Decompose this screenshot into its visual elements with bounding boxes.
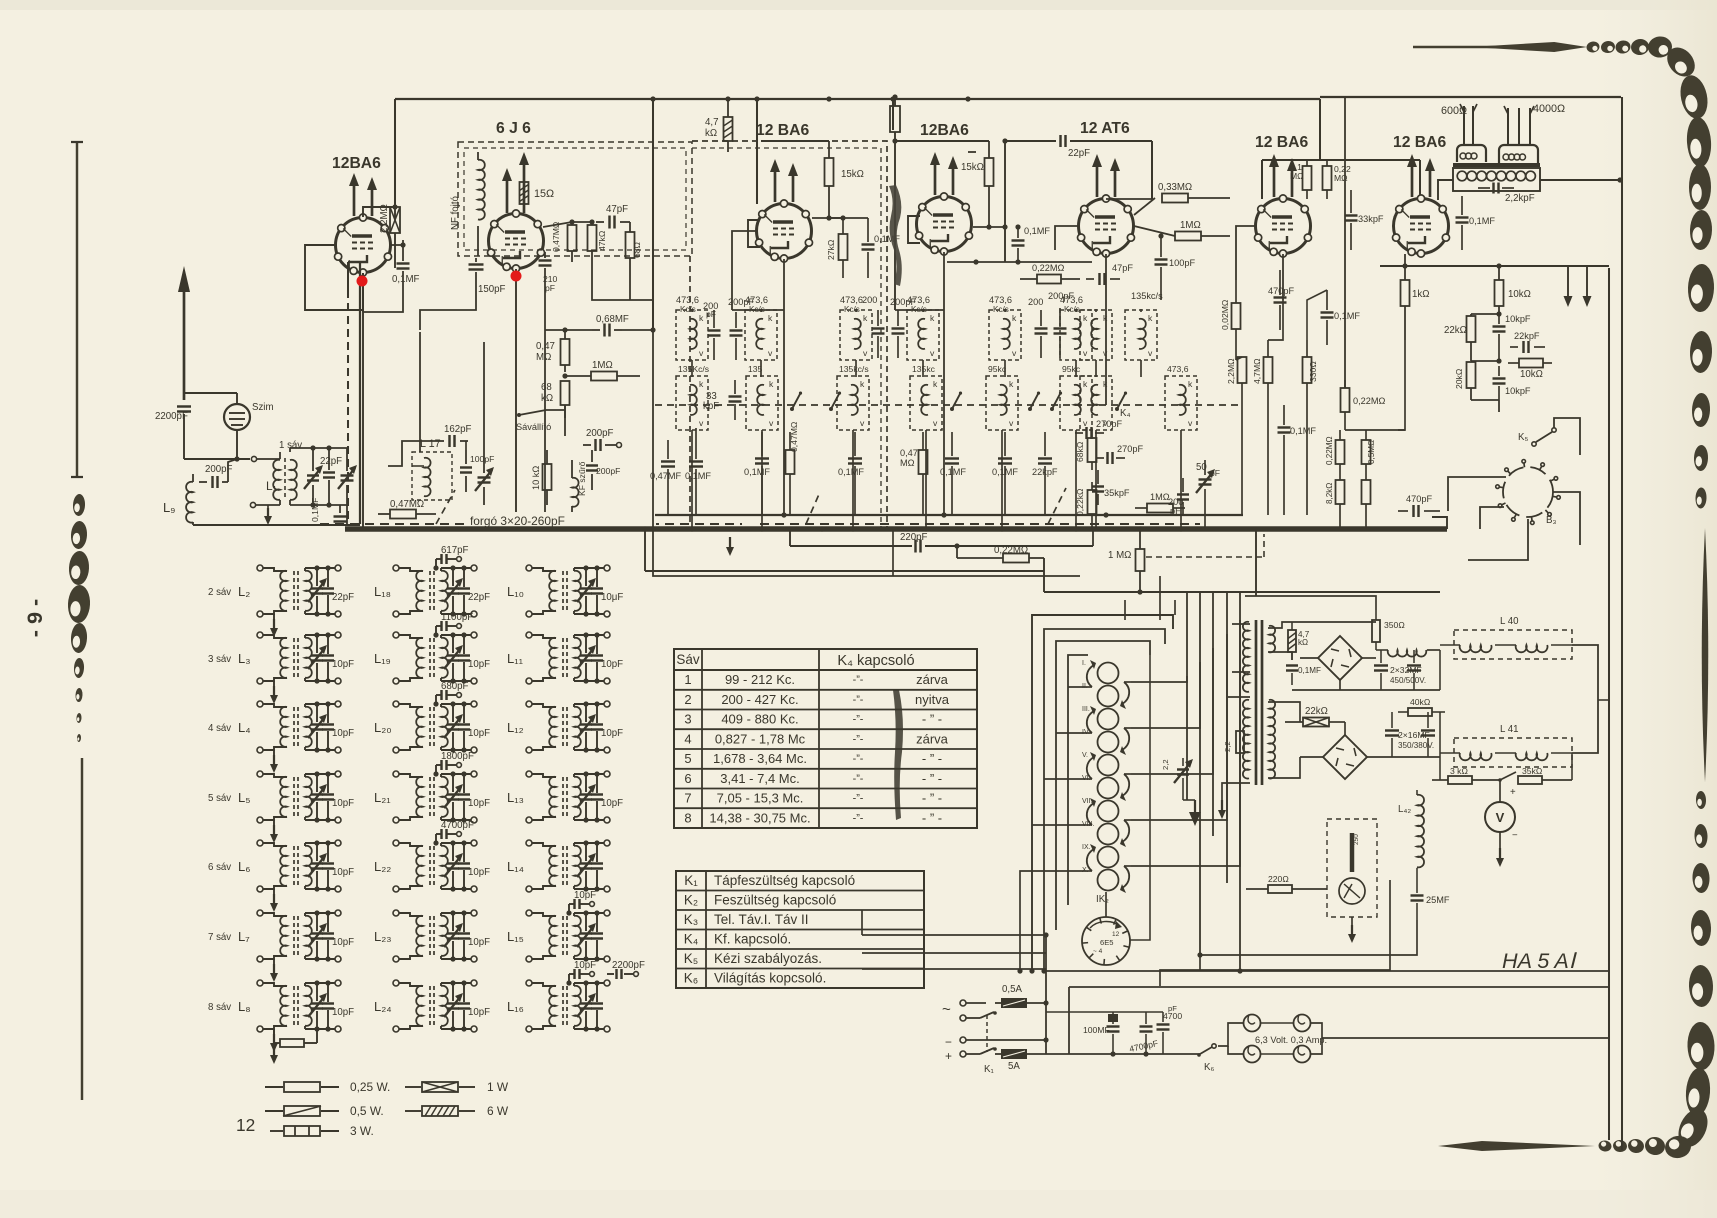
svg-text:10pF: 10pF bbox=[468, 798, 490, 809]
switch Vm bbox=[1498, 772, 1516, 782]
svg-text:v: v bbox=[1188, 418, 1193, 428]
capacitor 4700pF b bbox=[1157, 1004, 1183, 1054]
svg-text:4700pF: 4700pF bbox=[441, 820, 474, 831]
ornament right chain lower bbox=[1687, 791, 1716, 1071]
resistor 68kohm v bbox=[1075, 430, 1097, 470]
wire join6 bbox=[1597, 645, 1599, 700]
svg-text:4: 4 bbox=[684, 732, 691, 747]
svg-text:2×32MF: 2×32MF bbox=[1390, 665, 1422, 675]
svg-text:L₂₃: L₂₃ bbox=[374, 929, 392, 944]
svg-text:2,2: 2,2 bbox=[1161, 759, 1170, 770]
svg-text:2 sáv: 2 sáv bbox=[208, 587, 231, 598]
shield box NF fojto bbox=[458, 142, 692, 256]
svg-text:470pF: 470pF bbox=[1406, 494, 1432, 504]
svg-text:14,38 - 30,75 Mc.: 14,38 - 30,75 Mc. bbox=[709, 811, 810, 826]
coil unit L8 bbox=[208, 980, 354, 1064]
svg-text:10pF: 10pF bbox=[332, 867, 354, 878]
svg-text:L₄₂: L₄₂ bbox=[1398, 804, 1411, 815]
svg-text:L₁₉: L₁₉ bbox=[374, 651, 391, 666]
capacitor 210pF bbox=[539, 252, 558, 293]
wire join10 bbox=[1245, 596, 1376, 610]
svg-text:k: k bbox=[1009, 379, 1014, 389]
ground bus bbox=[726, 537, 734, 556]
svg-text:7 sáv: 7 sáv bbox=[208, 932, 231, 943]
wire drop d3 bbox=[1306, 410, 1308, 515]
svg-text:4000Ω: 4000Ω bbox=[1533, 103, 1565, 115]
svg-text:2,2MΩ: 2,2MΩ bbox=[1226, 358, 1236, 384]
svg-text:20kΩ: 20kΩ bbox=[1454, 368, 1464, 389]
svg-text:MΩ: MΩ bbox=[1334, 173, 1348, 183]
capacitor 47pF V5 bbox=[1086, 263, 1133, 285]
IF can lower 135Kc/s x692 bbox=[676, 364, 709, 430]
wire route p7 bbox=[1056, 732, 1085, 734]
svg-text:K₆: K₆ bbox=[1204, 1062, 1214, 1073]
arrow down r1 bbox=[1564, 266, 1573, 307]
wire bbox=[652, 99, 654, 330]
ornament left chain bbox=[67, 494, 91, 742]
label HA5AI bbox=[1502, 948, 1578, 973]
svg-text:L₁₄: L₁₄ bbox=[507, 859, 524, 874]
wire bbox=[892, 99, 894, 130]
svg-text:L₂₀: L₂₀ bbox=[374, 720, 392, 735]
svg-text:k: k bbox=[699, 379, 704, 389]
coil unit L20 bbox=[374, 681, 490, 753]
svg-text:200pF: 200pF bbox=[596, 466, 620, 476]
table K1-K6 legend bbox=[676, 871, 924, 988]
svg-text:0,1MF: 0,1MF bbox=[1334, 311, 1360, 321]
pilot lamp 2 bbox=[1294, 1015, 1311, 1032]
IF can lower 473,6 x1181 bbox=[1165, 364, 1197, 430]
dashed K1 link bbox=[986, 1015, 988, 1052]
grid bracket V4 bbox=[908, 216, 920, 243]
resistor 2,2kohm tr bbox=[1223, 720, 1244, 762]
tube V3 12BA6 bbox=[756, 122, 813, 262]
wire route i bbox=[1307, 290, 1327, 340]
capacitor 270pF a bbox=[1075, 419, 1122, 439]
resistor 15kohm V3 bbox=[825, 141, 864, 218]
svg-text:10pF: 10pF bbox=[468, 659, 490, 670]
svg-text:1MΩ: 1MΩ bbox=[1150, 492, 1170, 502]
resistor 4,7kohm ps bbox=[1288, 622, 1310, 660]
svg-text:I.: I. bbox=[1082, 660, 1086, 667]
wire route h bbox=[1268, 300, 1283, 340]
IF can 473,6 x692 bbox=[676, 295, 708, 360]
wire V6 grid bbox=[1236, 226, 1255, 280]
label K1 bbox=[984, 1064, 994, 1075]
svg-text:L₁₂: L₁₂ bbox=[507, 720, 524, 735]
resistor 20kohm bbox=[1454, 362, 1476, 400]
coil out primary bbox=[1453, 168, 1540, 191]
svg-text:473,6: 473,6 bbox=[989, 295, 1012, 305]
legend resistor 6W bbox=[405, 1104, 509, 1118]
wire V4 cathode bbox=[943, 252, 945, 515]
bus dots bbox=[689, 526, 1183, 531]
wire osc up2 bbox=[483, 342, 485, 460]
wire route p4 bbox=[1131, 634, 1227, 820]
svg-text:L₈: L₈ bbox=[238, 999, 251, 1014]
resistor 1Mohm low bbox=[1108, 526, 1145, 594]
svg-text:v: v bbox=[933, 418, 938, 428]
svg-text:10kΩ: 10kΩ bbox=[1508, 289, 1531, 300]
svg-text:22pF: 22pF bbox=[1068, 148, 1090, 159]
coil unit L7 bbox=[208, 910, 354, 982]
ground L1 bbox=[264, 505, 272, 525]
wire route p11 bbox=[1105, 892, 1107, 917]
svg-text:0,5MΩ: 0,5MΩ bbox=[1367, 440, 1376, 464]
coil unit L6 bbox=[208, 840, 354, 912]
svg-text:K₄: K₄ bbox=[1120, 408, 1130, 419]
dashed diag1 bbox=[436, 490, 455, 524]
red dot 1 bbox=[357, 276, 368, 287]
svg-text:KF szűrő: KF szűrő bbox=[577, 461, 587, 496]
wire route c bbox=[895, 309, 944, 311]
table Sav/K4 kapcsolo bbox=[674, 649, 977, 828]
wire route p8 bbox=[1044, 778, 1085, 780]
capacitor 200pF if5 bbox=[1028, 297, 1048, 358]
coil unit L12 bbox=[507, 701, 623, 753]
svg-text:pF: pF bbox=[1210, 468, 1220, 478]
svg-text:0,02MΩ: 0,02MΩ bbox=[1220, 299, 1230, 330]
dashed forgo line bbox=[320, 523, 1200, 525]
capacitor 0,1MF a bbox=[685, 428, 711, 515]
svg-text:2200pF: 2200pF bbox=[612, 960, 645, 971]
variable cap main1 bbox=[338, 448, 357, 525]
svg-text:NF fojtó: NF fojtó bbox=[450, 196, 461, 230]
page number -9- bbox=[22, 599, 47, 637]
label 600ohm bbox=[1441, 105, 1467, 117]
wire route d bbox=[968, 151, 976, 153]
svg-text:10pF: 10pF bbox=[332, 937, 354, 948]
svg-text:MΩ: MΩ bbox=[1290, 171, 1304, 181]
ground ps mid bbox=[1183, 800, 1201, 826]
svg-text:k: k bbox=[699, 313, 704, 323]
power transformer bbox=[1243, 620, 1275, 785]
svg-text:6,3 Volt. 0,3 Amp.: 6,3 Volt. 0,3 Amp. bbox=[1255, 1035, 1327, 1045]
heater arrows V7 12BA6 bbox=[1407, 154, 1435, 197]
label 1 sav bbox=[279, 440, 302, 451]
svg-text:K₄: K₄ bbox=[684, 932, 699, 947]
svg-text:22kΩ: 22kΩ bbox=[1305, 706, 1328, 717]
legend resistor 0.5W bbox=[265, 1104, 384, 1118]
ornament top-right beads bbox=[1586, 38, 1651, 57]
terminal - bbox=[960, 1037, 1046, 1043]
svg-text:VII.: VII. bbox=[1082, 798, 1093, 805]
svg-text:K₃: K₃ bbox=[684, 912, 699, 927]
wire route g bbox=[1432, 517, 1447, 529]
coil unit L18 bbox=[374, 545, 490, 617]
svg-text:- ” -: - ” - bbox=[922, 751, 942, 766]
svg-text:95kc: 95kc bbox=[988, 364, 1007, 374]
voltmeter V bbox=[1485, 780, 1518, 848]
svg-text:473,6: 473,6 bbox=[840, 295, 863, 305]
wire ant row bbox=[184, 456, 272, 461]
capacitor 0,1MF m bbox=[1321, 290, 1361, 345]
capacitor 162pF bbox=[436, 424, 472, 447]
resistor 2,2Mohm m bbox=[1226, 357, 1247, 410]
svg-text:IX.: IX. bbox=[1082, 844, 1091, 851]
pilot lamp 4 bbox=[1294, 1046, 1311, 1063]
resistor 2,2Mohm bbox=[379, 204, 400, 268]
capacitor 2x32MF bbox=[1374, 650, 1426, 690]
capacitor 270pF b bbox=[1096, 444, 1143, 464]
coil unit L24 bbox=[374, 980, 490, 1032]
capacitor 2,2kpF bbox=[1478, 183, 1535, 205]
svg-text:35kpF: 35kpF bbox=[1104, 488, 1130, 498]
svg-text:L₁: L₁ bbox=[266, 479, 277, 493]
wire lamp box bbox=[1218, 1023, 1243, 1054]
wire B3 a bbox=[1553, 492, 1580, 545]
wire underline4 bbox=[1044, 591, 1440, 593]
svg-text:- ” -: - ” - bbox=[922, 771, 942, 786]
resistor 0,47Mohm b bbox=[786, 421, 800, 515]
svg-text:k: k bbox=[1188, 379, 1193, 389]
wire ps1 bbox=[1292, 622, 1440, 690]
ornament right chain upper bbox=[1687, 210, 1715, 509]
svg-text:200: 200 bbox=[862, 295, 877, 305]
wire drop d2 bbox=[1267, 410, 1269, 515]
wire V4 plate vert bbox=[1002, 138, 1007, 262]
svg-text:L₁₀: L₁₀ bbox=[507, 584, 524, 599]
capacitor 0,1MF e bbox=[992, 432, 1018, 515]
svg-text:409 - 880 Kc.: 409 - 880 Kc. bbox=[721, 712, 798, 727]
IF can 473,6 x923 bbox=[907, 295, 939, 360]
resistor 10kohm r1 bbox=[1495, 266, 1531, 314]
wire mains v1 bbox=[1043, 935, 1048, 1054]
svg-text:330Ω: 330Ω bbox=[1308, 361, 1318, 382]
resistor 0,33Mohm bbox=[1134, 182, 1230, 215]
coil NF fojto bbox=[450, 152, 485, 256]
svg-text:L₇: L₇ bbox=[238, 929, 250, 944]
capacitor 0,1MF ps bbox=[1286, 666, 1321, 686]
wire V2 cathode bbox=[515, 269, 517, 524]
svg-text:L₃: L₃ bbox=[238, 651, 251, 666]
capacitor 0,1MF V4 bbox=[1012, 224, 1051, 264]
svg-text:3,41 - 7,4 Mc.: 3,41 - 7,4 Mc. bbox=[720, 771, 799, 786]
svg-text:-”-: -”- bbox=[853, 674, 864, 686]
wire route b bbox=[732, 309, 784, 311]
capacitor 0,1MF V3 bbox=[862, 218, 901, 278]
label lamps bbox=[1255, 1035, 1327, 1045]
switch K6 bbox=[1197, 1044, 1216, 1073]
svg-text:K₅: K₅ bbox=[1518, 432, 1528, 443]
capacitor 200pF if4 bbox=[890, 297, 916, 358]
svg-text:10pF: 10pF bbox=[332, 659, 354, 670]
svg-text:Kc/s: Kc/s bbox=[680, 305, 696, 314]
page number 12 bbox=[236, 1115, 255, 1135]
coil L1 transformer bbox=[250, 448, 296, 508]
svg-text:22kpF: 22kpF bbox=[1514, 331, 1540, 341]
svg-text:L₁₅: L₁₅ bbox=[507, 929, 524, 944]
ground Vm bbox=[1496, 848, 1504, 867]
wire route j bbox=[1398, 340, 1405, 430]
tube V6 12BA6 bbox=[1255, 134, 1312, 257]
svg-text:kpF: kpF bbox=[703, 401, 719, 412]
switch savallito bbox=[516, 405, 565, 436]
svg-text:0,1MF: 0,1MF bbox=[1298, 666, 1321, 675]
wire V5 cathode bbox=[1105, 254, 1107, 405]
wire underline3 bbox=[642, 526, 1044, 592]
svg-text:12BA6: 12BA6 bbox=[920, 122, 969, 139]
capacitor 200pF if2 bbox=[728, 297, 754, 360]
wire frame ps4 bbox=[1068, 655, 1088, 905]
left margin rule upper bbox=[71, 141, 83, 478]
antenna coupling circle bbox=[224, 393, 274, 459]
wire mains v2 bbox=[1068, 987, 1070, 1054]
resistor 68kohm chain bbox=[541, 381, 570, 418]
ornament bottom rule bbox=[1460, 1145, 1560, 1147]
IF can 135kc/s x1141 bbox=[1125, 291, 1163, 360]
coil unit L3 bbox=[208, 632, 354, 704]
svg-text:200pF: 200pF bbox=[890, 297, 916, 307]
rotary switch B3 bbox=[1496, 460, 1561, 527]
coil unit L23 bbox=[374, 910, 490, 962]
wire stack-tr 2 bbox=[1017, 952, 1242, 973]
variable cap osc bbox=[475, 460, 494, 505]
wire bbox=[420, 280, 476, 330]
shield dashed drop bbox=[692, 141, 887, 529]
IF can lower 135kc/s x853 bbox=[837, 364, 869, 430]
ornament bottom spear bbox=[1438, 1141, 1595, 1151]
svg-text:250: 250 bbox=[1353, 834, 1360, 845]
svg-text:kΩ: kΩ bbox=[541, 393, 553, 404]
dashed stub low bbox=[1146, 534, 1264, 557]
bus thick bbox=[345, 526, 1447, 532]
svg-text:10kpF: 10kpF bbox=[1505, 314, 1531, 324]
wire bbox=[363, 204, 398, 217]
svg-text:L 41: L 41 bbox=[1500, 724, 1519, 735]
svg-text:0,1MF: 0,1MF bbox=[838, 467, 864, 477]
svg-text:Szim: Szim bbox=[252, 402, 274, 413]
svg-text:kΩ: kΩ bbox=[705, 128, 717, 139]
coil unit L10 bbox=[507, 565, 623, 617]
red dot 2 bbox=[511, 271, 522, 282]
svg-text:0,25 W.: 0,25 W. bbox=[350, 1080, 390, 1094]
wire route p15 bbox=[1200, 920, 1417, 971]
svg-text:k: k bbox=[1083, 313, 1088, 323]
speaker coil small bbox=[1457, 104, 1486, 162]
IF can lower 135kc x926 bbox=[910, 364, 942, 430]
grid bracket V3 bbox=[748, 220, 760, 247]
wire route f bbox=[1236, 357, 1242, 360]
svg-text:0,47MF: 0,47MF bbox=[650, 471, 682, 481]
svg-text:1800pF: 1800pF bbox=[441, 751, 474, 762]
resistor 0,47Mohm bot bbox=[378, 499, 436, 519]
wire route k bbox=[1345, 429, 1405, 431]
resistor 0,47Mohm c bbox=[900, 432, 928, 515]
wire mains h1 bbox=[1046, 970, 1609, 972]
wire V2 out bbox=[592, 270, 653, 300]
svg-text:100pF: 100pF bbox=[470, 454, 494, 464]
coil L17 box bbox=[412, 438, 452, 500]
wire V4 screen rail bbox=[895, 140, 989, 142]
wire right mid bbox=[1560, 265, 1609, 267]
resistor 35kohm bbox=[1518, 766, 1572, 784]
svg-text:6: 6 bbox=[684, 771, 691, 786]
wire route p2 bbox=[1131, 662, 1200, 728]
terminal + bbox=[960, 1047, 997, 1057]
coil unit L16 bbox=[507, 960, 645, 1032]
capacitor 200pF if6 bbox=[1048, 291, 1074, 358]
svg-text:10pF: 10pF bbox=[601, 798, 623, 809]
wire join3 bbox=[1124, 600, 1126, 620]
tube V2 6J6 bbox=[488, 120, 545, 272]
svg-text:12 BA6: 12 BA6 bbox=[1393, 134, 1446, 151]
capacitor 0,1MF V1 bbox=[392, 240, 420, 300]
coil L42 bbox=[1398, 790, 1424, 880]
wire frame ps6 bbox=[1239, 592, 1241, 971]
capacitor 0,1MF b bbox=[744, 432, 770, 515]
svg-text:220Ω: 220Ω bbox=[1268, 874, 1289, 884]
svg-text:K₂: K₂ bbox=[684, 893, 698, 908]
resistor 0,47Mohm V2 bbox=[551, 221, 577, 262]
svg-text:10 kΩ: 10 kΩ bbox=[531, 466, 541, 490]
resistor 4,7Mohm m bbox=[1252, 340, 1273, 410]
wire frame ps8 bbox=[1212, 592, 1214, 836]
svg-text:200pF: 200pF bbox=[205, 464, 233, 475]
wire right top bbox=[1380, 263, 1560, 268]
wire drop d4 bbox=[1283, 460, 1285, 515]
svg-text:150pF: 150pF bbox=[478, 284, 506, 295]
wire V1 frame bbox=[305, 245, 363, 310]
svg-text:1,678 - 3,64 Mc.: 1,678 - 3,64 Mc. bbox=[713, 751, 807, 766]
svg-text:~ 4: ~ 4 bbox=[1093, 948, 1103, 955]
svg-text:1 MΩ: 1 MΩ bbox=[1108, 550, 1131, 561]
resistor 0,47Mohm chain bbox=[536, 330, 570, 372]
svg-text:270pF: 270pF bbox=[1117, 444, 1143, 454]
tube V1 12BA6 bbox=[332, 155, 392, 276]
core out trafo bbox=[1453, 163, 1540, 167]
svg-text:200pF: 200pF bbox=[586, 428, 614, 439]
terminal ~2 bbox=[960, 1011, 997, 1021]
wire route p16 bbox=[1160, 880, 1390, 986]
svg-text:473,6: 473,6 bbox=[1167, 364, 1189, 374]
svg-text:0,47MΩ: 0,47MΩ bbox=[390, 499, 424, 510]
svg-text:0,5A: 0,5A bbox=[1002, 984, 1022, 995]
ornament bottom-right corner bbox=[1663, 1067, 1713, 1160]
wire route p6 bbox=[1068, 686, 1085, 688]
wire r cluster bbox=[1471, 358, 1502, 412]
svg-text:22kΩ: 22kΩ bbox=[1444, 325, 1467, 336]
svg-text:6E5: 6E5 bbox=[1100, 938, 1114, 947]
wire gang shaft bbox=[348, 262, 360, 524]
coil unit L15 bbox=[507, 890, 610, 962]
svg-text:22pF: 22pF bbox=[332, 592, 354, 603]
ornament top-right spear bbox=[1470, 42, 1587, 52]
label forgo bbox=[466, 512, 656, 528]
svg-text:10pF: 10pF bbox=[601, 728, 623, 739]
svg-text:k: k bbox=[1012, 313, 1017, 323]
svg-text:pF: pF bbox=[1168, 1004, 1177, 1013]
svg-text:33kpF: 33kpF bbox=[1358, 214, 1384, 224]
legend resistor 0.25W bbox=[265, 1080, 390, 1094]
svg-text:3: 3 bbox=[684, 712, 691, 727]
svg-text:MΩ: MΩ bbox=[900, 458, 915, 468]
resistor 22kohm ps bbox=[1285, 706, 1345, 735]
wire osc up3 bbox=[465, 441, 467, 450]
frame right v2 bbox=[1621, 97, 1623, 1150]
svg-text:−: − bbox=[945, 1035, 952, 1049]
frame right v1 bbox=[1608, 268, 1610, 1140]
svg-text:B₃: B₃ bbox=[1546, 515, 1556, 526]
ornament top-right corner bbox=[1647, 35, 1713, 210]
wire route m bbox=[362, 273, 364, 312]
wire frame ps2 bbox=[1044, 629, 1165, 971]
svg-text:Feszültség kapcsoló: Feszültség kapcsoló bbox=[714, 893, 836, 908]
svg-text:Kc/s: Kc/s bbox=[844, 305, 860, 314]
svg-text:k: k bbox=[1148, 313, 1153, 323]
wire join2 bbox=[892, 529, 894, 576]
wire L40 right bbox=[1572, 645, 1598, 753]
